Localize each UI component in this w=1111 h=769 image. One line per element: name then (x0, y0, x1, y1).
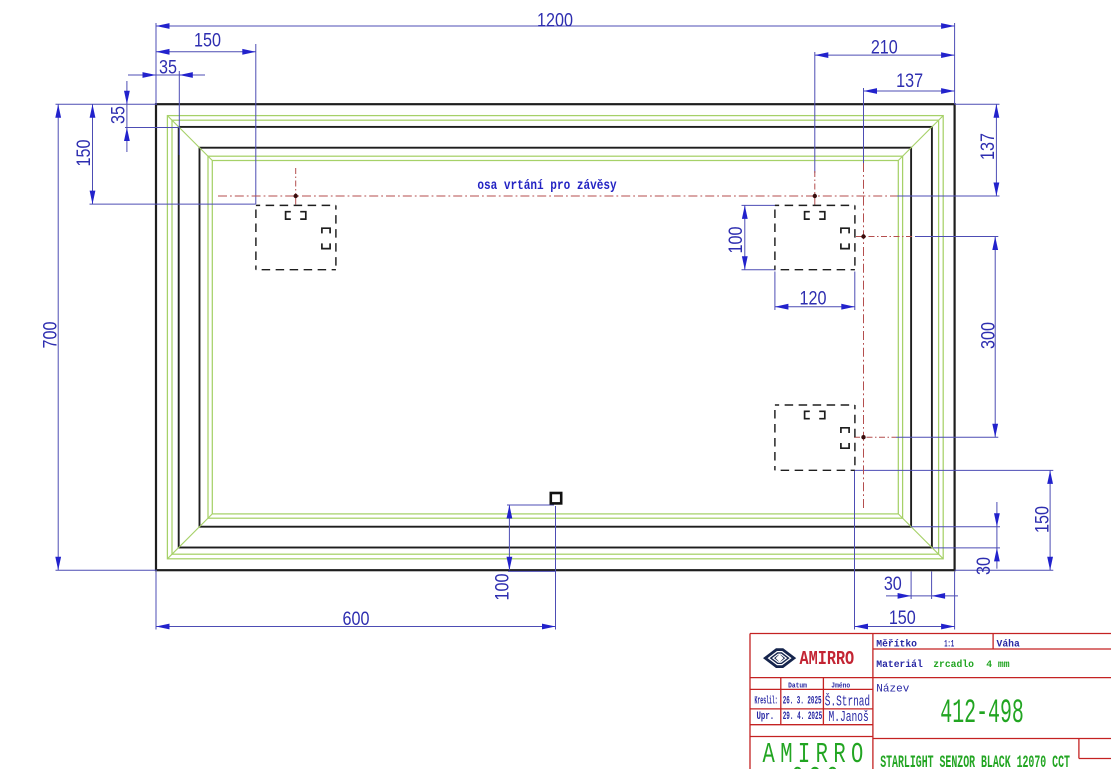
svg-text:26. 3. 2025: 26. 3. 2025 (783, 695, 822, 707)
svg-text:Váha: Váha (997, 639, 1020, 650)
svg-text:Š.Strnad: Š.Strnad (825, 692, 870, 710)
svg-text:150: 150 (1031, 506, 1053, 533)
svg-text:29. 4. 2025: 29. 4. 2025 (783, 710, 823, 722)
svg-text:Kreslil:: Kreslil: (755, 694, 778, 707)
svg-text:210: 210 (871, 36, 898, 58)
svg-text:Název: Název (876, 684, 909, 696)
svg-text:120: 120 (800, 287, 827, 309)
svg-text:35: 35 (159, 56, 177, 78)
svg-text:150: 150 (73, 139, 95, 166)
svg-text:AMIRRO: AMIRRO (800, 650, 855, 671)
svg-text:Upr.: Upr. (757, 710, 775, 723)
svg-text:Datum: Datum (788, 681, 807, 689)
svg-text:30: 30 (973, 557, 995, 575)
svg-text:700: 700 (39, 321, 61, 348)
svg-text:Jméno: Jméno (831, 681, 850, 689)
svg-text:100: 100 (491, 573, 513, 600)
svg-text:100: 100 (725, 226, 747, 253)
svg-text:1:1: 1:1 (944, 639, 954, 650)
svg-text:600: 600 (343, 608, 370, 630)
svg-text:STARLIGHT SENZOR BLACK 12070 C: STARLIGHT SENZOR BLACK 12070 CCT (880, 753, 1070, 769)
svg-text:30: 30 (884, 573, 902, 595)
svg-text:412-498: 412-498 (940, 695, 1024, 733)
svg-text:150: 150 (889, 607, 916, 629)
svg-text:osa vrtání pro závěsy: osa vrtání pro závěsy (477, 178, 617, 193)
svg-text:1200: 1200 (537, 9, 573, 31)
svg-text:35: 35 (107, 106, 129, 124)
svg-text:620: 620 (791, 763, 844, 769)
svg-text:137: 137 (896, 70, 923, 92)
svg-text:Měřítko: Měřítko (876, 639, 917, 650)
svg-text:137: 137 (977, 133, 999, 160)
svg-text:M.Janoš: M.Janoš (829, 709, 869, 726)
svg-text:Materiál: Materiál (876, 659, 923, 670)
svg-text:zrcadlo: zrcadlo (933, 659, 974, 670)
svg-text:4 mm: 4 mm (986, 659, 1009, 670)
svg-text:300: 300 (977, 322, 999, 349)
svg-text:150: 150 (194, 29, 221, 51)
